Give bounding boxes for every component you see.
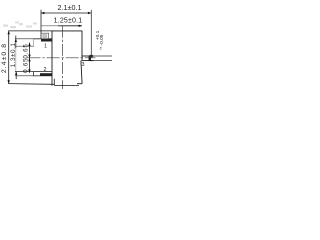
pin 3 tip blob [90,55,93,57]
arrows middle pitch [28,55,30,58]
extension line right x91.3 [90,10,92,56]
pin 1 number box [41,33,49,39]
pin 3 tip dark [89,56,91,61]
svg-text:-0.05: -0.05 [99,34,105,45]
pin 3 lead outline [82,56,90,61]
svg-text:2: 2 [44,67,47,73]
arrow left dim 2.1 [41,12,44,14]
arrow dim 1.3 lower [15,72,17,75]
arrow right dim 1.25 [79,25,82,27]
vertical centerline [62,26,64,89]
body right edge lower segment [81,61,82,84]
pin 2 lead outline [34,72,53,76]
svg-text:2.1±0.1: 2.1±0.1 [58,3,82,12]
dimension line 1.25 [41,25,58,27]
svg-text:0.65: 0.65 [23,43,30,58]
bottom second line [54,85,79,87]
bottom step vertical [53,79,55,86]
dimension line 2.1 [41,12,91,14]
bottom extension line y83.7 [8,83,54,86]
body bottom edge right stub [77,83,82,85]
arrow right dim 2.1 [88,12,91,14]
svg-text:1.25±0.1: 1.25±0.1 [54,18,83,25]
arrow down pitch [28,69,30,72]
pin 1 box inner marks [42,34,47,36]
svg-text:0.65: 0.65 [23,58,30,73]
package body rectangle [52,31,82,86]
pin 2 inner dark bar [40,73,52,76]
arrow dim 1.3 upper [15,39,17,42]
arrow down dim 2.0 [8,80,10,83]
horizontal centerline [28,57,96,59]
svg-text:3: 3 [82,62,85,68]
svg-text:2.4±0.8: 2.4±0.8 [1,43,8,73]
extension line left x41 [40,10,42,39]
pin 1 lead outline [34,38,53,40]
arrow up pitch [28,43,30,46]
arrow up dim 2.0 [8,31,10,34]
top extension line y31 [8,30,52,32]
faint scan smudges top-left [3,22,37,29]
vertical dimension line 2.0 (x8.7) [8,31,10,84]
pin 1 extension lines [15,38,34,40]
pin 3 extension lines [90,55,93,57]
pin 2 extension lines [15,71,34,73]
svg-text:1: 1 [44,44,47,50]
dim 1.3 vertical line [15,36,17,49]
pin 1 inner dark bar [41,39,52,42]
pitch dimension line 0.65 (x29.5) [29,43,31,73]
